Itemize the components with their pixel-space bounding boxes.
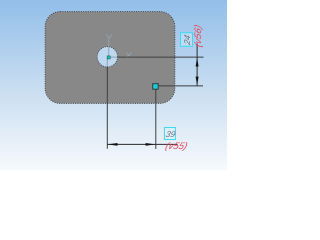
- dimension line: horizontal 39: [107, 143, 177, 145]
- sketch point (selected square): [153, 84, 159, 90]
- extension line: circle center vertical (down): [106, 67, 108, 149]
- svg-text:(v56): (v56): [193, 23, 204, 48]
- arrow up (24 top): [196, 58, 199, 67]
- selection box around 24: [181, 33, 193, 47]
- hole circle (selected, dotted outline): [97, 47, 117, 67]
- arrow left (39): [108, 143, 118, 146]
- marker stem into circle: [108, 46, 110, 56]
- rounded-rectangle plate (selected, dotted outline): [45, 12, 175, 104]
- extension line: point horizontal (right): [156, 85, 203, 87]
- arrow down (24 bottom): [196, 77, 199, 86]
- extension line: point vertical (down): [155, 87, 157, 150]
- DOF marker above circle: [107, 35, 113, 46]
- svg-text:(v55): (v55): [164, 141, 189, 152]
- light line inside circle to right edge: [107, 56, 117, 58]
- circle center point: [107, 56, 110, 59]
- DOF marker right of circle: [126, 53, 132, 58]
- dimension line: vertical 24: [196, 44, 198, 86]
- light line inside circle downward: [106, 57, 108, 67]
- extension line: circle center horizontal (right): [117, 56, 203, 58]
- arrow right (39): [146, 143, 156, 146]
- selection box around 39: [164, 128, 175, 140]
- viewport background: [0, 0, 227, 170]
